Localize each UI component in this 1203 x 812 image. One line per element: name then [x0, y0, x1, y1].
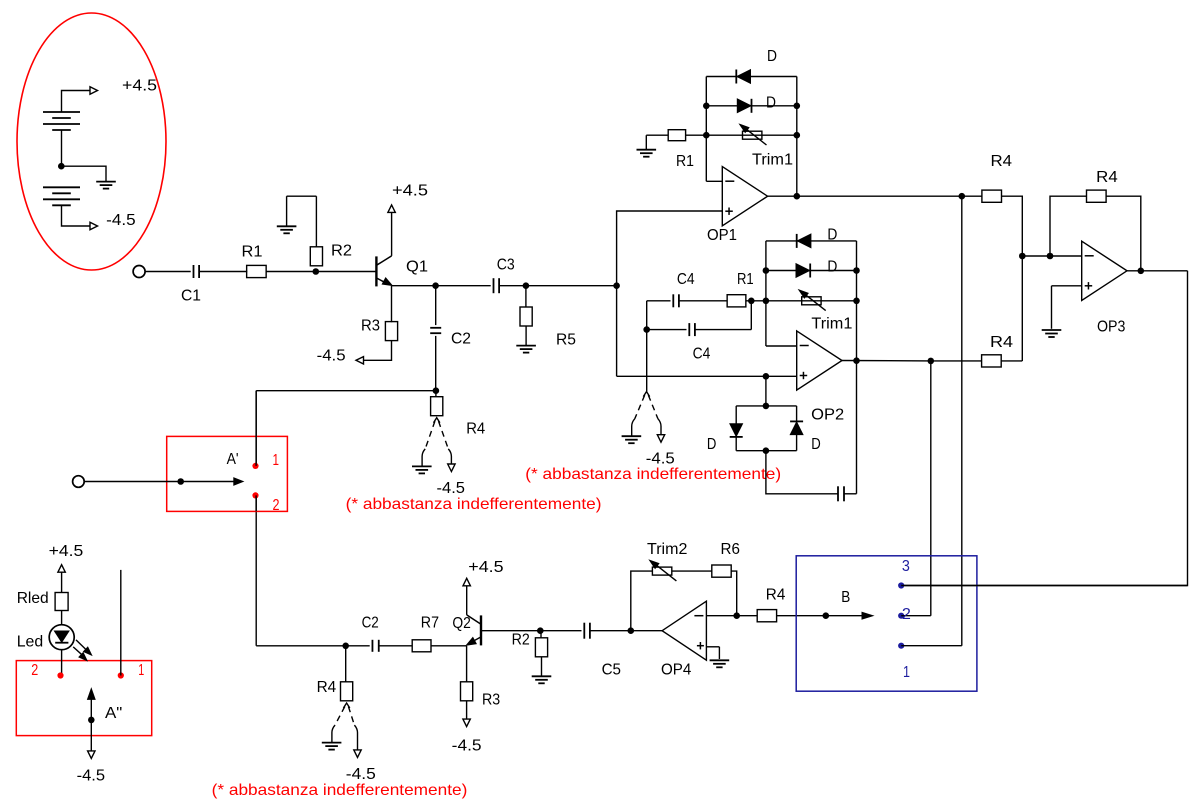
- svg-text:Q2: Q2: [452, 615, 471, 632]
- svg-text:3: 3: [902, 558, 910, 575]
- svg-text:(* abbastanza indefferentemen: (* abbastanza indefferentemente): [525, 466, 781, 483]
- svg-text:A": A": [105, 705, 122, 722]
- svg-text:1: 1: [903, 664, 910, 681]
- svg-text:-4.5: -4.5: [437, 480, 466, 497]
- svg-text:C1: C1: [181, 288, 201, 305]
- svg-text:R2: R2: [331, 243, 352, 260]
- svg-text:OP4: OP4: [661, 661, 691, 678]
- svg-text:C2: C2: [362, 614, 379, 631]
- svg-text:R1: R1: [242, 244, 263, 261]
- svg-text:Q1: Q1: [406, 259, 428, 276]
- svg-text:R4: R4: [990, 334, 1013, 351]
- svg-text:+4.5: +4.5: [122, 78, 157, 95]
- svg-text:C3: C3: [497, 257, 515, 274]
- svg-text:-4.5: -4.5: [317, 347, 346, 364]
- svg-text:1: 1: [273, 452, 280, 469]
- svg-text:-4.5: -4.5: [452, 738, 482, 755]
- svg-text:+4.5: +4.5: [392, 183, 428, 200]
- svg-text:D: D: [827, 259, 837, 276]
- svg-text:2: 2: [273, 497, 280, 514]
- svg-text:D: D: [766, 95, 776, 112]
- svg-text:R1: R1: [676, 153, 694, 170]
- svg-text:Trim1: Trim1: [752, 152, 793, 169]
- svg-text:D: D: [767, 48, 777, 65]
- svg-text:R6: R6: [721, 541, 740, 558]
- svg-text:R4: R4: [766, 587, 786, 604]
- svg-text:Trim1: Trim1: [811, 315, 852, 332]
- svg-text:A': A': [227, 451, 239, 468]
- svg-text:R4: R4: [1096, 169, 1118, 186]
- svg-text:+4.5: +4.5: [49, 543, 84, 560]
- svg-text:R5: R5: [556, 332, 576, 349]
- svg-text:(* abbastanza indefferentemen: (* abbastanza indefferentemente): [212, 782, 468, 799]
- svg-text:C2: C2: [451, 331, 471, 348]
- svg-text:D: D: [827, 227, 837, 244]
- svg-text:R3: R3: [482, 692, 500, 709]
- svg-text:R4: R4: [991, 153, 1013, 170]
- svg-text:-4.5: -4.5: [346, 766, 376, 783]
- svg-text:Trim2: Trim2: [647, 541, 687, 558]
- svg-text:2: 2: [31, 662, 38, 679]
- svg-text:C5: C5: [602, 661, 621, 678]
- svg-text:1: 1: [138, 662, 144, 679]
- svg-text:R3: R3: [361, 318, 380, 335]
- svg-text:R1: R1: [737, 271, 754, 288]
- svg-text:+4.5: +4.5: [468, 559, 503, 576]
- svg-text:R4: R4: [466, 421, 485, 438]
- svg-text:OP1: OP1: [707, 227, 737, 244]
- svg-text:D: D: [707, 436, 717, 453]
- svg-text:OP2: OP2: [811, 407, 844, 424]
- svg-text:R4: R4: [317, 679, 337, 696]
- svg-text:B: B: [841, 589, 850, 606]
- svg-text:R2: R2: [512, 632, 530, 649]
- svg-text:Rled: Rled: [17, 590, 49, 607]
- svg-text:R7: R7: [421, 614, 439, 631]
- svg-text:C4: C4: [693, 346, 711, 363]
- svg-text:2: 2: [902, 606, 911, 623]
- svg-text:OP3: OP3: [1097, 319, 1125, 336]
- svg-text:-4.5: -4.5: [106, 212, 136, 229]
- svg-text:(* abbastanza indefferentemen: (* abbastanza indefferentemente): [346, 496, 602, 513]
- svg-text:Led: Led: [17, 633, 44, 650]
- svg-text:-4.5: -4.5: [77, 767, 106, 784]
- svg-text:C4: C4: [677, 271, 695, 288]
- svg-text:D: D: [811, 436, 821, 453]
